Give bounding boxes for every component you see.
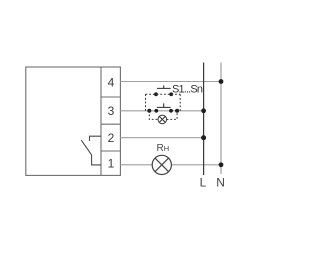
push button S2 stem xyxy=(163,103,165,107)
wire terminal 2 to L xyxy=(120,137,203,139)
L line xyxy=(203,63,205,176)
push button S2 bridge xyxy=(157,106,171,108)
glow lamp branch right junction xyxy=(175,109,179,113)
relay switch blade xyxy=(81,140,91,155)
glow lamp circle xyxy=(158,115,167,124)
push button S1 left contact xyxy=(154,92,158,96)
push button S1 stem xyxy=(163,85,165,88)
svg-text:L: L xyxy=(200,176,207,190)
glow lamp X diagonal 2 xyxy=(159,116,165,122)
junction wire4-N xyxy=(219,79,224,84)
lamp Rh X diagonal 1 xyxy=(155,158,169,172)
lamp Rh circle xyxy=(152,155,171,174)
N line xyxy=(220,63,222,175)
svg-text:S1...Sn: S1...Sn xyxy=(172,83,203,95)
glow lamp dashed branch left xyxy=(149,111,158,120)
svg-text:1: 1 xyxy=(108,157,115,171)
dashed button box top edge xyxy=(146,93,181,95)
svg-text:4: 4 xyxy=(108,75,115,89)
svg-text:N: N xyxy=(216,176,225,190)
push button S2 right contact xyxy=(169,109,173,113)
terminal column divider xyxy=(100,67,102,175)
junction wire2-L xyxy=(201,135,206,140)
relay switch fixed contact xyxy=(90,136,102,141)
terminal 4/3 divider xyxy=(101,96,120,98)
glow lamp X diagonal 1 xyxy=(159,116,165,122)
dashed button box left edge xyxy=(145,94,147,111)
device box U1 xyxy=(26,67,121,175)
glow lamp dashed branch right xyxy=(167,111,178,120)
svg-text:RH: RH xyxy=(157,143,170,154)
junction wire3-L xyxy=(201,108,206,113)
lamp Rh X diagonal 2 xyxy=(155,158,169,172)
push button S2 left contact xyxy=(154,109,158,113)
terminal 3/2 divider xyxy=(101,123,120,125)
push button S1 bridge xyxy=(157,87,171,89)
glow lamp branch left junction xyxy=(147,109,151,113)
relay switch wire to terminal 1 xyxy=(92,155,101,165)
svg-text:3: 3 xyxy=(108,104,115,118)
dashed button box right edge xyxy=(179,94,181,111)
wire lamp to N xyxy=(171,164,221,166)
junction wire1-N xyxy=(219,162,224,167)
wire terminal 1 to lamp xyxy=(120,164,152,166)
push button S1 right contact xyxy=(169,92,173,96)
svg-text:2: 2 xyxy=(108,131,115,145)
terminal 2/1 divider xyxy=(101,150,120,152)
wire terminal 4 to N xyxy=(120,81,221,83)
wire terminal 3 to L xyxy=(120,110,203,112)
